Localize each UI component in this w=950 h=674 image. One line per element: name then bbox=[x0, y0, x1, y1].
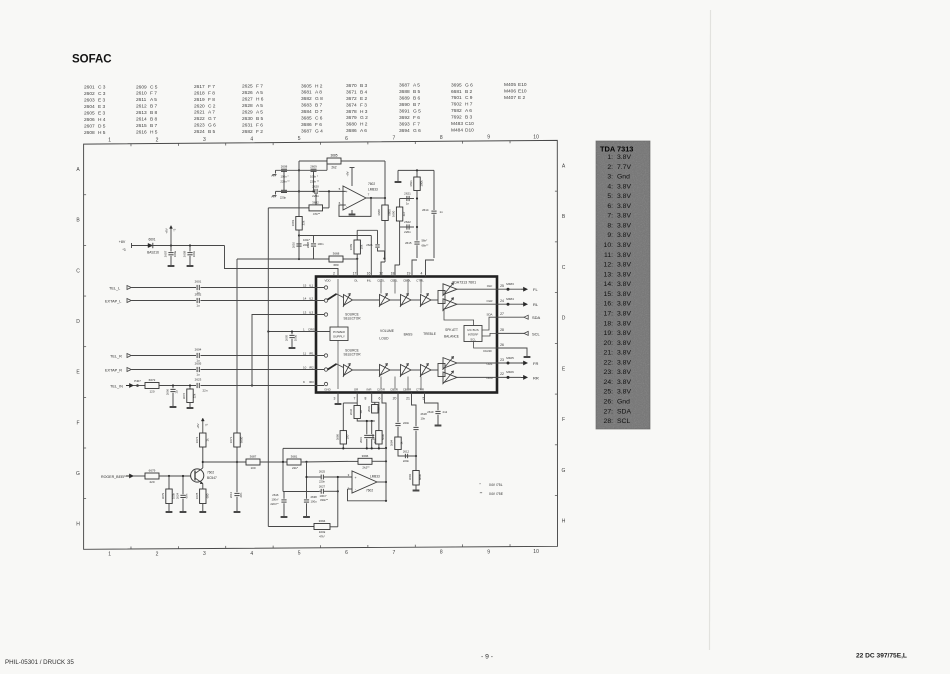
svg-text:G 5: G 5 bbox=[413, 108, 421, 114]
scan crease artifact bbox=[710, 10, 711, 650]
svg-text:220n **: 220n ** bbox=[280, 179, 290, 183]
svg-text:6800: 6800 bbox=[240, 436, 244, 443]
svg-text:3671: 3671 bbox=[229, 436, 233, 443]
svg-text:FL: FL bbox=[533, 287, 538, 292]
svg-text:1n: 1n bbox=[406, 201, 410, 205]
svg-text:3.8V: 3.8V bbox=[617, 242, 631, 249]
capacitor C2625 series in plus rail bbox=[307, 476, 321, 478]
ground R3679 bbox=[166, 511, 173, 513]
svg-text:2602: 2602 bbox=[195, 293, 202, 297]
svg-text:6:: 6: bbox=[607, 203, 613, 210]
svg-text:H 2: H 2 bbox=[360, 122, 368, 128]
wire plus node down bbox=[328, 191, 330, 208]
svg-text:3690: 3690 bbox=[392, 210, 396, 217]
svg-text:3.8V: 3.8V bbox=[617, 213, 631, 220]
svg-text:22 DC 397/75E,L: 22 DC 397/75E,L bbox=[856, 653, 907, 660]
svg-text:220n: 220n bbox=[404, 230, 411, 234]
svg-text:M406: M406 bbox=[504, 89, 516, 95]
svg-text:GND: GND bbox=[324, 387, 330, 391]
svg-text:3.8V: 3.8V bbox=[617, 222, 631, 229]
svg-text:10n: 10n bbox=[421, 417, 426, 421]
ground R3672 bbox=[187, 407, 194, 409]
svg-text:G 6: G 6 bbox=[413, 128, 421, 134]
wire to R3681 bbox=[260, 461, 287, 463]
svg-text:POWER: POWER bbox=[333, 330, 345, 334]
svg-text:2615: 2615 bbox=[405, 241, 412, 245]
svg-text:C: C bbox=[76, 268, 80, 274]
svg-text:2623: 2623 bbox=[195, 378, 202, 382]
op-amp ground stub bbox=[351, 210, 353, 214]
capacitor C2632 box bbox=[354, 406, 360, 419]
svg-text:2612: 2612 bbox=[136, 104, 147, 110]
resistor R3668 series bbox=[329, 256, 343, 262]
svg-text:CBOL: CBOL bbox=[403, 278, 411, 282]
svg-text:220n: 220n bbox=[312, 194, 319, 198]
svg-text:18: 18 bbox=[391, 272, 395, 276]
svg-text:2626: 2626 bbox=[366, 243, 373, 247]
svg-text:10k: 10k bbox=[360, 244, 364, 249]
svg-text:H 5: H 5 bbox=[98, 130, 106, 136]
ground C2624 bbox=[180, 511, 187, 513]
IC output amp ORF bbox=[443, 358, 457, 369]
svg-text:3693: 3693 bbox=[399, 121, 410, 127]
capacitor C2604 series bbox=[196, 353, 198, 358]
svg-text:04V /75E: 04V /75E bbox=[489, 492, 504, 496]
ground R3693 bbox=[413, 490, 420, 492]
svg-text:6681: 6681 bbox=[451, 89, 462, 95]
svg-text:E 2: E 2 bbox=[518, 95, 526, 101]
svg-text:3: 3 bbox=[334, 397, 336, 401]
svg-text:17:: 17: bbox=[604, 310, 614, 317]
svg-text:G 6: G 6 bbox=[465, 82, 473, 88]
IC signal chain wires R bbox=[353, 369, 380, 371]
svg-text:F 8: F 8 bbox=[208, 90, 215, 96]
svg-text:LM833: LM833 bbox=[370, 474, 380, 478]
svg-text:CREF: CREF bbox=[308, 327, 316, 331]
resistor R3679 to ground bbox=[168, 476, 170, 489]
svg-text:28:: 28: bbox=[604, 418, 614, 425]
svg-text:2629: 2629 bbox=[242, 109, 253, 115]
svg-text:3681: 3681 bbox=[301, 90, 312, 96]
svg-text:3.8V: 3.8V bbox=[617, 262, 631, 269]
resistor R3689 bbox=[354, 240, 360, 254]
capacitor C2608 input top bbox=[281, 168, 287, 170]
svg-text:17: 17 bbox=[353, 272, 357, 276]
op-amp output wire bbox=[366, 197, 385, 199]
svg-text:B 2: B 2 bbox=[465, 89, 473, 95]
svg-text:F 2: F 2 bbox=[256, 129, 263, 135]
svg-text:3687: 3687 bbox=[399, 83, 410, 89]
svg-text:C 6: C 6 bbox=[315, 116, 323, 122]
feedback link rail y230 bbox=[357, 229, 377, 231]
svg-text:TEL_IN: TEL_IN bbox=[110, 384, 123, 388]
svg-text:100u: 100u bbox=[294, 334, 298, 341]
op-amp feedback loop bbox=[339, 198, 371, 216]
svg-text:D 7: D 7 bbox=[315, 109, 323, 115]
svg-text:B 8: B 8 bbox=[150, 110, 158, 116]
svg-text:ROGER_BEEP: ROGER_BEEP bbox=[101, 475, 126, 479]
svg-text:220n**: 220n** bbox=[270, 502, 278, 506]
capacitor C2630 shunt bbox=[371, 421, 373, 434]
svg-text:ORR: ORR bbox=[486, 376, 492, 380]
svg-text:M407: M407 bbox=[504, 95, 516, 101]
wire I2C box to SDA pin bbox=[482, 317, 497, 330]
wire R3685 to node bbox=[341, 160, 385, 162]
capacitor C2610 column bbox=[298, 236, 300, 243]
svg-text:2619: 2619 bbox=[194, 97, 205, 103]
svg-text:IR1: IR1 bbox=[309, 351, 314, 355]
svg-text:8: 8 bbox=[440, 550, 443, 556]
svg-text:10: 10 bbox=[533, 134, 539, 140]
svg-text:3674: 3674 bbox=[195, 436, 199, 443]
svg-text:INR: INR bbox=[367, 387, 372, 391]
svg-text:7.7V: 7.7V bbox=[617, 164, 631, 171]
svg-text:2: 2 bbox=[333, 272, 335, 276]
svg-text:B 5: B 5 bbox=[413, 89, 421, 95]
svg-text:C 2: C 2 bbox=[208, 103, 216, 109]
grid column numbers and ticks bbox=[108, 134, 539, 557]
svg-text:2609: 2609 bbox=[136, 84, 147, 90]
capacitor C2612 series bbox=[404, 454, 406, 458]
svg-text:M483: M483 bbox=[506, 282, 514, 286]
svg-text:6: 6 bbox=[345, 550, 348, 556]
svg-text:3.8V: 3.8V bbox=[617, 320, 631, 327]
svg-text:IR2: IR2 bbox=[309, 365, 314, 369]
svg-text:BAS216: BAS216 bbox=[147, 250, 159, 254]
svg-text:B 7: B 7 bbox=[413, 102, 421, 108]
IC source selector switch wedge R bbox=[328, 364, 337, 370]
svg-text:2621: 2621 bbox=[194, 110, 205, 116]
svg-text:3689: 3689 bbox=[349, 243, 353, 250]
wire EXTAP_R row bbox=[131, 369, 196, 371]
wire pin16 vertical bbox=[370, 236, 372, 277]
svg-text:+8V: +8V bbox=[196, 423, 200, 428]
svg-text:2603: 2603 bbox=[84, 98, 95, 104]
resistor R3672 to ground bbox=[189, 386, 191, 390]
svg-text:BC547: BC547 bbox=[207, 476, 217, 480]
svg-text:2602: 2602 bbox=[84, 91, 95, 97]
vertical x399 with R3690 bbox=[399, 199, 401, 208]
wire IL3 to TEL_IN junction bbox=[252, 315, 324, 386]
svg-text:F 3: F 3 bbox=[360, 102, 367, 108]
svg-text:FR: FR bbox=[533, 361, 538, 366]
+8V rail arrow bbox=[170, 228, 172, 246]
capacitor C2624 base bbox=[182, 476, 184, 494]
svg-text:21:: 21: bbox=[604, 350, 614, 357]
svg-text:120: 120 bbox=[149, 389, 154, 393]
svg-text:2620: 2620 bbox=[194, 103, 205, 109]
svg-text:3691: 3691 bbox=[399, 108, 410, 114]
svg-text:2616: 2616 bbox=[136, 129, 147, 135]
svg-text:3690: 3690 bbox=[399, 102, 410, 108]
IC signal chain wires L bbox=[353, 299, 380, 301]
svg-text:TEL_L: TEL_L bbox=[109, 286, 120, 290]
svg-text:M484: M484 bbox=[451, 128, 463, 134]
svg-text:2605: 2605 bbox=[84, 110, 95, 116]
ground C2613 bbox=[234, 511, 241, 513]
resistor R3692 shunt bbox=[376, 431, 382, 444]
svg-text:2610: 2610 bbox=[136, 91, 147, 97]
svg-text:F 7: F 7 bbox=[150, 91, 157, 97]
svg-text:68n: 68n bbox=[239, 492, 243, 497]
+8V arrow collector bbox=[202, 421, 204, 434]
svg-text:G 7: G 7 bbox=[208, 116, 216, 122]
svg-text:330n**: 330n** bbox=[320, 498, 328, 502]
svg-text:8: 8 bbox=[365, 397, 367, 401]
svg-text:F 6: F 6 bbox=[413, 115, 420, 121]
svg-text:3689: 3689 bbox=[399, 96, 410, 102]
svg-text:1u: 1u bbox=[196, 373, 200, 377]
svg-text:24:: 24: bbox=[604, 379, 614, 386]
svg-text:2621: 2621 bbox=[404, 192, 411, 196]
svg-text:OLF: OLF bbox=[487, 284, 493, 288]
svg-text:3.8V: 3.8V bbox=[617, 193, 631, 200]
svg-text:2632: 2632 bbox=[349, 408, 353, 415]
svg-text:7602: 7602 bbox=[368, 182, 375, 186]
capacitor C2609 input top bbox=[311, 168, 317, 170]
svg-text:3687: 3687 bbox=[301, 128, 312, 134]
svg-text:3.8V: 3.8V bbox=[617, 154, 631, 161]
svg-text:+8V: +8V bbox=[346, 171, 350, 176]
svg-text:D: D bbox=[562, 316, 566, 322]
wire to IC pin 4 bbox=[426, 260, 435, 277]
svg-text:IL2: IL2 bbox=[309, 296, 314, 300]
svg-text:+: + bbox=[354, 476, 356, 480]
svg-text:1:: 1: bbox=[607, 154, 613, 161]
svg-text:H 4: H 4 bbox=[98, 117, 106, 123]
svg-text:F 6: F 6 bbox=[256, 122, 263, 128]
svg-text:22: 22 bbox=[500, 372, 504, 376]
svg-text:14: 14 bbox=[303, 296, 307, 300]
svg-text:100n*: 100n* bbox=[271, 498, 278, 502]
svg-text:3:: 3: bbox=[607, 174, 613, 181]
riser x283 rail to beep row bbox=[282, 448, 284, 491]
svg-text:3.8V: 3.8V bbox=[617, 252, 631, 259]
svg-text:INL: INL bbox=[367, 278, 372, 282]
svg-text:SUPPLY: SUPPLY bbox=[333, 335, 345, 339]
svg-text:3682: 3682 bbox=[301, 96, 312, 102]
wire CREF bbox=[268, 331, 330, 333]
svg-text:22k: 22k bbox=[302, 220, 306, 225]
rail y448 bbox=[283, 447, 386, 449]
svg-text:100n: 100n bbox=[318, 242, 324, 246]
svg-text:P407: P407 bbox=[134, 379, 141, 383]
svg-text:4: 4 bbox=[250, 551, 253, 557]
svg-text:12:: 12: bbox=[604, 262, 614, 269]
IC source selector amp L bbox=[344, 295, 353, 306]
wire TEL_L row bbox=[131, 287, 196, 289]
svg-text:E 3: E 3 bbox=[98, 110, 106, 116]
svg-text:IL1: IL1 bbox=[309, 283, 314, 287]
svg-text:3.8V: 3.8V bbox=[617, 291, 631, 298]
IC source selector switch wedge L bbox=[328, 294, 337, 300]
svg-text:3.8V: 3.8V bbox=[617, 301, 631, 308]
svg-text:3684: 3684 bbox=[390, 439, 394, 446]
svg-text:EXTAP_L: EXTAP_L bbox=[105, 299, 121, 303]
svg-text:G 4: G 4 bbox=[315, 128, 323, 134]
svg-text:SDA: SDA bbox=[532, 315, 541, 320]
svg-text:9:: 9: bbox=[607, 232, 613, 239]
svg-text:3691: 3691 bbox=[409, 180, 413, 187]
svg-text:B 7: B 7 bbox=[150, 123, 158, 129]
bus x268 bottom to R3694 bbox=[268, 526, 314, 528]
svg-text:6672: 6672 bbox=[149, 378, 156, 382]
svg-text:2610: 2610 bbox=[292, 241, 296, 248]
svg-text:B 3: B 3 bbox=[360, 83, 368, 89]
capacitor C2605 CREF decoupling bbox=[291, 332, 293, 335]
resistor R3684 bbox=[395, 437, 401, 450]
svg-text:1u: 1u bbox=[175, 390, 179, 394]
op-amp U7602a LM833 bbox=[343, 186, 366, 210]
svg-text:3678: 3678 bbox=[346, 109, 357, 115]
capacitor C2622 row bbox=[400, 226, 414, 228]
svg-text:3.8V: 3.8V bbox=[617, 369, 631, 376]
svg-text:2: 2 bbox=[156, 137, 159, 143]
svg-text:2606: 2606 bbox=[84, 117, 95, 123]
wire TEL_IN row bbox=[159, 385, 196, 387]
svg-text:100n *: 100n * bbox=[310, 174, 319, 178]
svg-text:2601: 2601 bbox=[195, 280, 202, 284]
svg-text:*3: *3 bbox=[122, 248, 125, 252]
svg-text:H 3: H 3 bbox=[360, 109, 368, 115]
op-amp2 minus input wire bbox=[348, 488, 353, 490]
svg-text:100n: 100n bbox=[192, 250, 196, 257]
svg-text:8:: 8: bbox=[607, 222, 613, 229]
svg-text:CBOR: CBOR bbox=[403, 387, 411, 391]
svg-text:3686: 3686 bbox=[301, 122, 312, 128]
svg-text:I2C BUS: I2C BUS bbox=[467, 328, 478, 332]
svg-text:2605: 2605 bbox=[285, 334, 289, 341]
svg-text:3695: 3695 bbox=[451, 82, 462, 88]
svg-text:3: 3 bbox=[203, 551, 206, 557]
IC pin 3 ground bbox=[337, 393, 339, 404]
svg-text:1n: 1n bbox=[440, 210, 444, 214]
svg-text:E10: E10 bbox=[518, 89, 527, 95]
drop x306 to cap rail bbox=[306, 462, 308, 492]
svg-text:3694: 3694 bbox=[319, 519, 326, 523]
svg-text:2627: 2627 bbox=[319, 485, 326, 489]
svg-text:G: G bbox=[562, 468, 566, 474]
svg-text:3684: 3684 bbox=[301, 109, 312, 115]
svg-text:100n *: 100n * bbox=[280, 174, 289, 178]
wire supply corner to IC pin 2 bbox=[225, 246, 339, 277]
wire I2C box to DGND pin bbox=[474, 342, 497, 349]
IC output amp ORR bbox=[443, 372, 457, 383]
svg-text:5: 5 bbox=[298, 551, 301, 557]
svg-text:2617: 2617 bbox=[194, 84, 205, 90]
svg-text:CB1L: CB1L bbox=[390, 278, 398, 282]
svg-text:20: 20 bbox=[393, 397, 397, 401]
op-amp supply stub bbox=[351, 168, 353, 187]
IC output splitter R bbox=[438, 364, 445, 377]
svg-text:2607: 2607 bbox=[84, 123, 95, 129]
svg-text:6679: 6679 bbox=[149, 469, 156, 473]
svg-text:2k2**: 2k2** bbox=[362, 465, 370, 469]
svg-text:3.8V: 3.8V bbox=[617, 183, 631, 190]
svg-text:*3: *3 bbox=[173, 228, 177, 231]
svg-text:2625: 2625 bbox=[242, 84, 253, 90]
main vertical node x385 bbox=[384, 161, 386, 205]
svg-text:100k: 100k bbox=[420, 180, 424, 187]
svg-text:VDD: VDD bbox=[324, 278, 330, 282]
svg-text:3680: 3680 bbox=[346, 122, 357, 128]
svg-text:BALANCE: BALANCE bbox=[444, 335, 459, 339]
ground C2603b bbox=[170, 406, 177, 408]
svg-text:B 7: B 7 bbox=[315, 103, 323, 109]
ground left of cap rail bbox=[275, 170, 277, 173]
svg-text:2n2: 2n2 bbox=[443, 410, 448, 414]
svg-text:LOUD: LOUD bbox=[379, 337, 389, 341]
svg-text:2604: 2604 bbox=[84, 104, 95, 110]
svg-text:3674: 3674 bbox=[346, 102, 357, 108]
capacitor C2638 to ground bbox=[306, 492, 308, 499]
svg-text:CTRR: CTRR bbox=[416, 387, 424, 391]
IC pin 6 wire to x386 bbox=[382, 393, 386, 501]
svg-text:2615: 2615 bbox=[136, 123, 147, 129]
wire C2620 to R3682 bbox=[315, 194, 317, 205]
op-amp U7602b LM833 bbox=[352, 471, 377, 493]
IC power supply box bbox=[330, 327, 348, 341]
svg-text:22k: 22k bbox=[193, 393, 197, 398]
ground stub bias rail bbox=[397, 170, 399, 181]
wire R3681 to feedback row bbox=[302, 460, 348, 463]
capacitor C2602 series bbox=[196, 298, 198, 303]
resistor R3682 bbox=[268, 207, 309, 209]
svg-text:2630: 2630 bbox=[242, 116, 253, 122]
svg-text:7601: 7601 bbox=[451, 95, 462, 101]
wire x385 to IC pin 12 bbox=[381, 262, 385, 277]
IC control stubs bottom bbox=[380, 377, 382, 390]
svg-text:RR: RR bbox=[533, 375, 539, 380]
IC pin 21 network bbox=[412, 393, 417, 427]
svg-text:68n: 68n bbox=[185, 493, 189, 498]
resistor R3678 emitter bbox=[200, 489, 206, 504]
svg-text:SOFAC: SOFAC bbox=[72, 54, 112, 66]
capacitor C2620 series bbox=[314, 189, 316, 194]
svg-text:7692: 7692 bbox=[451, 115, 462, 121]
svg-text:68n**: 68n** bbox=[422, 244, 430, 248]
svg-text:3605: 3605 bbox=[301, 83, 312, 89]
svg-text:M405: M405 bbox=[506, 356, 514, 360]
IC volume amp L bbox=[380, 295, 391, 306]
IC internal VDD-GND rail bbox=[337, 279, 339, 327]
svg-text:680: 680 bbox=[205, 493, 209, 498]
svg-text:6800: 6800 bbox=[418, 473, 422, 480]
capacitor C2601 series bbox=[196, 285, 198, 290]
svg-text:SDA: SDA bbox=[617, 408, 631, 415]
wire I2C box to SCL pin bbox=[482, 333, 497, 336]
svg-text:1: 1 bbox=[108, 138, 111, 144]
svg-text:2607: 2607 bbox=[164, 250, 168, 257]
svg-text:04V /75L: 04V /75L bbox=[489, 483, 503, 487]
svg-text:220p: 220p bbox=[280, 196, 287, 200]
svg-text:13: 13 bbox=[303, 310, 307, 314]
svg-text:7682: 7682 bbox=[451, 108, 462, 114]
IC pin 8 wire bbox=[372, 393, 379, 431]
resistor R3696 feedback upper bbox=[348, 460, 358, 462]
svg-text:4:: 4: bbox=[607, 183, 613, 190]
resistor R3686 shunt bbox=[340, 431, 346, 444]
svg-text:B 5: B 5 bbox=[208, 129, 216, 135]
voltage table pin rows bbox=[604, 154, 632, 425]
svg-text:18:: 18: bbox=[604, 320, 614, 327]
svg-text:DGND: DGND bbox=[483, 349, 491, 353]
svg-text:2: 2 bbox=[156, 551, 159, 557]
wire C2632 to cluster bbox=[357, 419, 375, 422]
svg-text:7602: 7602 bbox=[451, 102, 462, 108]
IC source selector amp R bbox=[344, 365, 353, 376]
svg-text:7602: 7602 bbox=[207, 471, 214, 475]
